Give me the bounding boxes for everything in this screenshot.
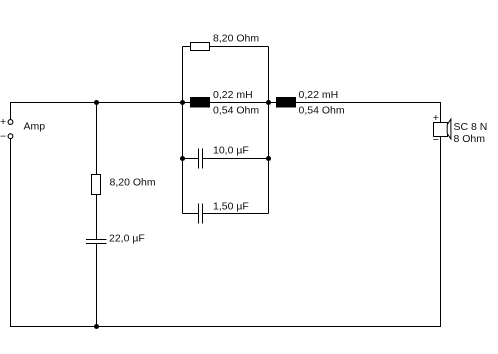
node junction parallel block left on main line <box>180 100 185 105</box>
wire parallel block left vertical <box>182 47 184 214</box>
svg-text:8,20 Ohm: 8,20 Ohm <box>110 177 156 189</box>
svg-text:0,54 Ohm: 0,54 Ohm <box>213 105 259 117</box>
node junction shunt bottom <box>94 324 99 329</box>
svg-text:+: + <box>0 116 6 128</box>
resistor R1 8,20 Ohm (top branch) <box>191 43 210 51</box>
wire top rail from Amp+ to speaker <box>11 103 441 123</box>
inductor L1 0,22 mH 0,54 Ohm <box>190 97 210 108</box>
speaker SP1 cone <box>447 119 451 139</box>
resistor R2 8,20 Ohm (shunt) <box>92 175 101 195</box>
node junction parallel block right on main line <box>266 100 271 105</box>
wire capacitor C2 branch right <box>203 213 269 215</box>
svg-text:SC 8 N: SC 8 N <box>454 121 488 133</box>
node junction C1 branch right <box>266 156 271 161</box>
wire shunt branch upper segment <box>96 103 98 240</box>
wire shunt branch lower segment <box>96 244 98 327</box>
svg-text:−: − <box>0 131 6 143</box>
svg-text:−: − <box>433 134 439 146</box>
Amp terminal + <box>8 120 13 125</box>
svg-text:0,22 mH: 0,22 mH <box>213 89 253 101</box>
capacitor C3 22,0 uF (shunt) <box>86 239 107 241</box>
svg-text:8,20 Ohm: 8,20 Ohm <box>213 33 259 45</box>
wire capacitor C1 branch left <box>183 158 199 160</box>
wire capacitor C2 branch left <box>183 213 199 215</box>
inductor L2 0,22 mH 0,54 Ohm <box>276 97 296 108</box>
svg-text:10,0 µF: 10,0 µF <box>213 145 249 157</box>
svg-text:0,54 Ohm: 0,54 Ohm <box>299 105 345 117</box>
svg-text:0,22 mH: 0,22 mH <box>299 89 339 101</box>
node junction at shunt top <box>94 100 99 105</box>
capacitor C2 1,50 uF <box>198 204 200 224</box>
wire bottom rail from Amp- to speaker <box>11 137 441 327</box>
svg-text:8 Ohm: 8 Ohm <box>454 133 486 145</box>
svg-text:1,50 µF: 1,50 µF <box>213 201 249 213</box>
node junction C1 branch left <box>180 156 185 161</box>
Amp terminal - <box>8 134 13 139</box>
wire parallel block right vertical <box>268 47 270 214</box>
svg-text:22,0 µF: 22,0 µF <box>109 233 145 245</box>
wire capacitor C1 branch right <box>203 158 269 160</box>
wire parallel block top branch <box>183 46 269 48</box>
svg-text:Amp: Amp <box>24 121 46 133</box>
speaker SP1 box <box>434 123 448 137</box>
svg-text:+: + <box>433 112 439 124</box>
capacitor C1 10,0 uF <box>198 149 200 169</box>
